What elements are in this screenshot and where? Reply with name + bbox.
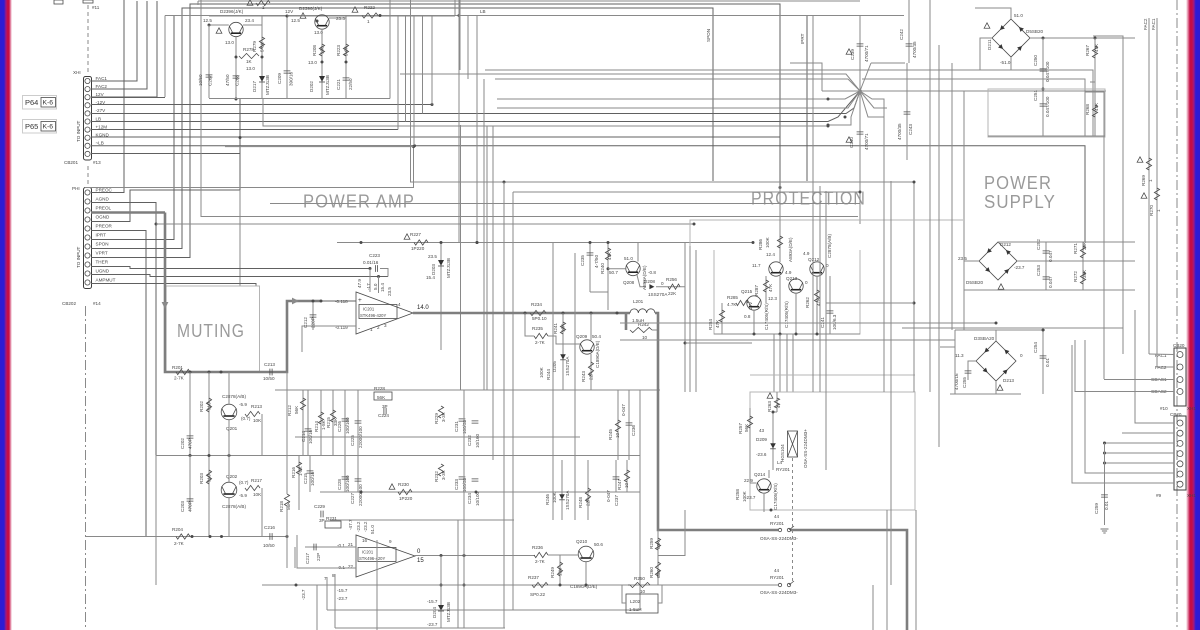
svg-text:10K: 10K [253, 418, 262, 423]
inductor L202 [626, 594, 658, 613]
resistor R267 [1094, 38, 1096, 137]
svg-text:0.01: 0.01 [1045, 358, 1050, 367]
ground [1101, 529, 1109, 533]
resistor R270 [1154, 188, 1159, 200]
node star junction [858, 89, 861, 92]
resistor R201 [176, 369, 190, 374]
svg-text:R260: R260 [649, 567, 654, 578]
svg-text:R256: R256 [666, 277, 677, 282]
svg-text:0-047: 0-047 [606, 490, 611, 502]
wire D211 left [980, 38, 992, 70]
resistor R269 [1146, 158, 1151, 170]
resistor R245 C236 [617, 390, 619, 460]
svg-text:51.0: 51.0 [370, 525, 375, 534]
svg-text:C252: C252 [1036, 239, 1041, 250]
capacitor C202 [189, 372, 191, 455]
svg-text:0.047/100: 0.047/100 [1045, 96, 1050, 117]
wire VPRT riser [91, 4, 780, 258]
svg-text:THER: THER [96, 259, 109, 264]
wire bundle center [458, 0, 460, 243]
wire pin7 drop [326, 577, 328, 610]
svg-text:22P: 22P [316, 553, 321, 561]
svg-text:R243: R243 [581, 371, 586, 382]
wire y328 [902, 327, 1123, 329]
svg-text:R230: R230 [398, 482, 409, 487]
svg-text:MUTING: MUTING [177, 321, 245, 341]
wire op-amp minus in [302, 326, 356, 352]
resistor R243 [590, 313, 592, 340]
svg-text:SPON: SPON [96, 241, 109, 246]
svg-text:47/50: 47/50 [225, 74, 230, 86]
svg-text:R232: R232 [434, 471, 439, 482]
wire FAC2 net [1148, 18, 1150, 354]
wire FAC2 riser [91, 1, 147, 89]
svg-text:1P220: 1P220 [399, 496, 413, 501]
connector stub boxes at top edge [54, 0, 63, 4]
wire y323 [620, 322, 996, 324]
svg-text:RY201: RY201 [770, 521, 784, 526]
svg-text:R237: R237 [528, 575, 539, 580]
resistor R237 [532, 582, 548, 587]
svg-text:50.4: 50.4 [592, 334, 601, 339]
svg-text:10: 10 [640, 589, 646, 594]
capacitor C231 [459, 419, 466, 421]
relay dashed link [792, 458, 794, 581]
svg-text:1: 1 [370, 327, 373, 332]
svg-text:Q208: Q208 [623, 280, 635, 285]
svg-text:-17: -17 [366, 283, 371, 290]
wire riser -27V2 [422, 16, 424, 114]
svg-text:IPRT: IPRT [800, 33, 805, 44]
diode D205 [562, 352, 564, 390]
wire THER bus [91, 267, 370, 269]
svg-text:SPON: SPON [706, 29, 711, 42]
svg-text:C213: C213 [264, 362, 275, 367]
svg-text:1SS270A: 1SS270A [648, 292, 668, 297]
wire riser ~LB2 [413, 16, 415, 146]
wire x468 [467, 16, 469, 80]
svg-text:C17405(R/S): C17405(R/S) [773, 483, 778, 510]
svg-text:#9: #9 [1156, 493, 1162, 498]
capacitor C221 [343, 78, 350, 80]
svg-text:4700/35: 4700/35 [912, 41, 917, 58]
svg-text:C253: C253 [1036, 265, 1041, 276]
svg-text:D209: D209 [756, 437, 767, 442]
svg-text:R258: R258 [735, 489, 740, 500]
wire Q218 base [209, 24, 229, 26]
wire lower opamp out [415, 555, 535, 557]
wire x464 [463, 390, 465, 628]
resistor R228 [374, 392, 392, 400]
svg-text:4700/71: 4700/71 [864, 133, 869, 150]
capacitor C241 [829, 276, 831, 334]
svg-text:FAC1: FAC1 [96, 76, 108, 81]
svg-text:19K: 19K [558, 567, 563, 576]
svg-text:-0.8: -0.8 [648, 270, 656, 275]
relay contact 2 [778, 583, 781, 586]
svg-text:22K: 22K [586, 497, 591, 506]
svg-text:R271: R271 [1073, 243, 1078, 254]
svg-text:D211: D211 [987, 39, 992, 50]
svg-text:R285: R285 [727, 295, 738, 300]
svg-text:#13: #13 [93, 160, 101, 165]
svg-text:+12M: +12M [96, 124, 108, 129]
resistor R279 [261, 25, 263, 98]
wire SPON riser [91, 8, 713, 249]
svg-text:10: 10 [642, 335, 648, 340]
svg-text:4.7K: 4.7K [727, 302, 737, 307]
bridge D213 [976, 341, 1016, 381]
capacitor C242 [908, 0, 910, 63]
svg-text:0: 0 [805, 280, 808, 285]
svg-text:-51.0: -51.0 [1000, 60, 1011, 65]
wire D211 bottom [980, 57, 1011, 70]
svg-text:10: 10 [615, 432, 620, 438]
wire y610 [327, 609, 640, 611]
svg-text:-23.7: -23.7 [337, 596, 348, 601]
transistor Q201 [221, 404, 237, 420]
wire FAC1 riser [91, 1, 137, 81]
resistor R260 [657, 556, 659, 585]
svg-text:R235: R235 [532, 326, 543, 331]
svg-text:R246: R246 [545, 494, 550, 505]
svg-text:D202: D202 [309, 81, 314, 92]
wire x930 [929, 0, 931, 392]
svg-text:47K: 47K [1094, 43, 1099, 52]
svg-text:4.9: 4.9 [785, 270, 792, 275]
svg-text:3-3K: 3-3K [441, 411, 446, 422]
svg-text:C221: C221 [336, 79, 341, 90]
svg-text:11.7: 11.7 [752, 263, 761, 268]
connector CB201 body [84, 77, 92, 161]
svg-text:C214: C214 [301, 431, 306, 442]
svg-text:16: 16 [362, 538, 368, 543]
svg-text:C237: C237 [614, 495, 619, 506]
svg-text:(0.7): (0.7) [239, 480, 249, 485]
svg-text:D2396(J/K): D2396(J/K) [220, 9, 244, 14]
wire long y215 thick feed [91, 211, 165, 214]
wire Q210 em [585, 562, 587, 585]
svg-text:R284: R284 [708, 319, 713, 330]
capacitor C235 [589, 243, 591, 293]
wire x317 drop [316, 585, 318, 630]
svg-text:IC201: IC201 [363, 307, 375, 312]
svg-text:K-6: K-6 [43, 124, 54, 131]
wire long y224 [156, 223, 694, 225]
capacitor C255 [968, 361, 976, 380]
capacitor C229 [321, 511, 323, 518]
svg-text:R267: R267 [1085, 45, 1090, 56]
svg-text:5P0.10: 5P0.10 [532, 316, 547, 321]
svg-text:R241: R241 [553, 323, 558, 334]
svg-text:R228: R228 [374, 386, 385, 391]
svg-text:-: - [358, 325, 360, 332]
wire x295b [294, 547, 296, 568]
wire long y192 [513, 192, 860, 224]
svg-text:-23.6: -23.6 [756, 452, 767, 457]
resistor R259 [657, 530, 659, 556]
svg-text:#14: #14 [93, 301, 101, 306]
svg-text:-5.9: -5.9 [239, 402, 247, 407]
capacitor C213 [270, 369, 272, 376]
wire x1104 [1085, 92, 1104, 379]
svg-text:C243: C243 [908, 124, 913, 135]
wire OGND jog [91, 99, 240, 222]
svg-text:D217: D217 [252, 81, 257, 92]
svg-text:C268: C268 [235, 75, 240, 86]
svg-text:10/160: 10/160 [475, 434, 480, 448]
wire x820 [819, 186, 821, 392]
svg-text:10/50: 10/50 [263, 543, 275, 548]
capacitor C236 [628, 390, 630, 460]
svg-text:-23.7: -23.7 [1014, 265, 1025, 270]
svg-text:5.0: 5.0 [373, 283, 378, 290]
svg-text:R263: R263 [767, 401, 772, 412]
wire riser LB2 [405, 16, 407, 122]
wire AGND down [91, 203, 156, 456]
svg-text:R227: R227 [410, 232, 421, 237]
svg-text:PREOC: PREOC [96, 187, 113, 192]
svg-text:POWER: POWER [984, 173, 1052, 193]
svg-text:10/100: 10/100 [475, 492, 480, 506]
wire op-amp plus in [321, 300, 356, 302]
transistor Q210 [578, 546, 594, 562]
capacitor C223 [375, 265, 377, 272]
resistor R230 [398, 489, 412, 494]
thick out to speaker [790, 530, 907, 630]
capacitor C228 [342, 477, 349, 479]
wire x377 drop [376, 540, 378, 630]
svg-text:FAC2: FAC2 [96, 84, 108, 89]
resistor R247 [626, 460, 628, 492]
wire Q209 base [548, 336, 580, 344]
resistor R249 [559, 555, 561, 585]
svg-text:MTZJ13B: MTZJ13B [446, 602, 451, 622]
wire C223 pin drops [369, 269, 371, 293]
resistor R208 [321, 29, 323, 98]
svg-text:C242: C242 [899, 29, 904, 40]
svg-text:13.0: 13.0 [308, 60, 317, 65]
svg-text:(0.7): (0.7) [241, 416, 251, 421]
svg-text:R215: R215 [326, 417, 331, 428]
resistor R257 [749, 408, 751, 440]
svg-text:47: 47 [776, 402, 781, 408]
svg-text:C229: C229 [314, 504, 325, 509]
wire x685 bundle [684, 243, 686, 393]
svg-text:-23.2: -23.2 [356, 521, 361, 532]
svg-text:21: 21 [348, 542, 354, 547]
svg-text:50.7: 50.7 [609, 270, 618, 275]
resistor R262 [816, 276, 818, 334]
svg-text:-23.7: -23.7 [301, 589, 306, 600]
svg-text:L202: L202 [630, 599, 641, 604]
ps box [988, 89, 1105, 137]
svg-text:5-6K: 5-6K [344, 45, 349, 56]
wire ~LB bus [91, 146, 1085, 242]
svg-text:R249: R249 [550, 567, 555, 578]
svg-text:4.9: 4.9 [803, 251, 810, 256]
svg-text:51.0: 51.0 [624, 256, 633, 261]
svg-text:100/16: 100/16 [310, 472, 315, 486]
svg-text:0.047/100: 0.047/100 [1045, 61, 1050, 82]
wire pin8 drop [334, 574, 336, 628]
wire top bus y1 [198, 0, 860, 2]
right border blue bar [1186, 0, 1200, 630]
svg-text:L201: L201 [633, 299, 644, 304]
svg-text:Q210: Q210 [576, 539, 588, 544]
svg-text:LB: LB [96, 116, 102, 121]
wire +12M bus [91, 129, 398, 131]
svg-text:FAC2: FAC2 [1143, 18, 1148, 30]
capacitor C232 [472, 421, 479, 423]
svg-text:13.0: 13.0 [246, 66, 255, 71]
wire y303 [826, 302, 914, 304]
thick out vertical [655, 313, 778, 530]
wire -27V bus [91, 91, 860, 114]
protection box [714, 250, 860, 334]
wire long y187 [85, 147, 414, 188]
capacitor C234 [472, 479, 479, 481]
svg-text:12V: 12V [285, 9, 294, 14]
wire x891 [890, 181, 892, 585]
svg-text:22.9: 22.9 [744, 478, 753, 483]
svg-text:-15.7: -15.7 [337, 588, 348, 593]
svg-text:2: 2 [377, 325, 380, 330]
svg-text:47.9: 47.9 [357, 279, 362, 288]
wire nest A [485, 70, 1093, 137]
wire C235 bottom [590, 291, 608, 293]
resistor R234 [530, 310, 546, 315]
svg-text:2-7K: 2-7K [535, 340, 546, 345]
svg-text:C234: C234 [467, 493, 472, 504]
svg-text:CB202: CB202 [62, 301, 76, 306]
svg-text:0.8: 0.8 [744, 314, 751, 319]
wire FAC1 net [1156, 18, 1158, 367]
wire LB bus [91, 91, 860, 122]
resistor R284 [721, 303, 723, 334]
svg-text:12.4: 12.4 [766, 252, 775, 257]
bridge D211 [992, 19, 1030, 57]
svg-text:15: 15 [417, 558, 424, 564]
svg-text:10K: 10K [253, 492, 262, 497]
capacitor C216 [270, 533, 272, 540]
svg-text:C227: C227 [350, 493, 355, 504]
svg-text:R222: R222 [364, 5, 375, 10]
svg-text:R240: R240 [600, 263, 605, 274]
wire D211 top [975, 8, 1011, 19]
svg-text:10: 10 [624, 482, 629, 488]
wire reg1 bottom rail [209, 98, 390, 100]
svg-text:1K: 1K [246, 59, 253, 64]
svg-text:C228: C228 [337, 479, 342, 490]
svg-text:R270: R270 [1149, 205, 1154, 216]
wire speaker box [915, 510, 917, 630]
svg-text:220P: 220P [311, 317, 316, 328]
svg-text:12.5: 12.5 [203, 18, 212, 23]
thick jog R242 [625, 313, 628, 330]
wire CB204 feeds [1135, 310, 1174, 423]
wire long y203 [270, 203, 860, 205]
svg-text:56K: 56K [744, 423, 749, 432]
svg-text:C224: C224 [378, 413, 389, 418]
svg-text:R272: R272 [1073, 271, 1078, 282]
wire -12V bus [91, 104, 433, 106]
wire x156 ext [155, 455, 157, 585]
wire y347 [940, 346, 955, 348]
svg-text:1: 1 [367, 19, 370, 24]
svg-text:-23.7: -23.7 [427, 622, 438, 627]
svg-text:12.5: 12.5 [291, 18, 300, 23]
transistor Q216 [769, 262, 783, 276]
svg-text:Q209: Q209 [576, 334, 588, 339]
diode D208 [649, 284, 654, 289]
svg-text:OGND: OGND [96, 214, 110, 219]
svg-text:L4: L4 [777, 460, 783, 465]
resistor R221 [256, 0, 270, 5]
svg-text:C203: C203 [180, 501, 185, 512]
svg-text:R223: R223 [336, 45, 341, 56]
svg-text:47K: 47K [768, 283, 773, 292]
svg-text:C215: C215 [303, 473, 308, 484]
svg-text:C17405(R/S): C17405(R/S) [784, 301, 789, 328]
label box P65 K-6 [23, 120, 57, 134]
svg-text:68K: 68K [656, 540, 661, 549]
resistor R250b [630, 582, 650, 587]
capacitor C233 [459, 477, 466, 479]
svg-text:C267: C267 [208, 75, 213, 86]
svg-text:100/16: 100/16 [308, 430, 313, 444]
wire prot rail [714, 333, 860, 335]
wire prot verts [753, 310, 755, 334]
svg-text:D5SB20: D5SB20 [966, 280, 984, 285]
svg-text:LB: LB [480, 9, 486, 14]
wire q214 [749, 440, 751, 483]
capacitor C243 [906, 63, 908, 160]
wire rail y437 [295, 436, 580, 438]
svg-text:R212: R212 [287, 405, 292, 416]
capacitor C268 [235, 37, 237, 98]
svg-text:47K: 47K [1094, 102, 1099, 111]
inductor L201 [630, 309, 655, 313]
svg-text:1: 1 [1156, 209, 1161, 212]
resistor R213 [245, 411, 260, 416]
svg-text:D2396(J/K): D2396(J/K) [299, 6, 323, 11]
wire x884 [883, 117, 885, 392]
svg-text:-27V: -27V [96, 108, 107, 113]
svg-text:12V: 12V [96, 92, 105, 97]
svg-text:R218: R218 [279, 501, 284, 512]
transistor Q208 [626, 261, 640, 275]
wire x826 [825, 191, 827, 470]
svg-text:C2878(A/B): C2878(A/B) [222, 394, 246, 399]
zener D204 lower [440, 556, 442, 629]
capacitor C203 [189, 455, 191, 510]
transistor Q209 [580, 340, 594, 354]
svg-text:C226: C226 [337, 421, 342, 432]
wire 12V to regulator [91, 97, 165, 99]
svg-text:910: 910 [207, 402, 212, 410]
svg-text:D3SBA20: D3SBA20 [974, 336, 995, 341]
wire x952 [951, 63, 953, 330]
wire x964 [963, 91, 965, 330]
svg-text:R269: R269 [1141, 175, 1146, 186]
wire Q208 base [608, 268, 626, 270]
svg-text:C223: C223 [369, 253, 380, 258]
resistor R272 [1080, 272, 1085, 284]
connector CB202 body [84, 188, 92, 289]
svg-text:56K: 56K [294, 405, 299, 414]
svg-text:R213: R213 [251, 404, 262, 409]
